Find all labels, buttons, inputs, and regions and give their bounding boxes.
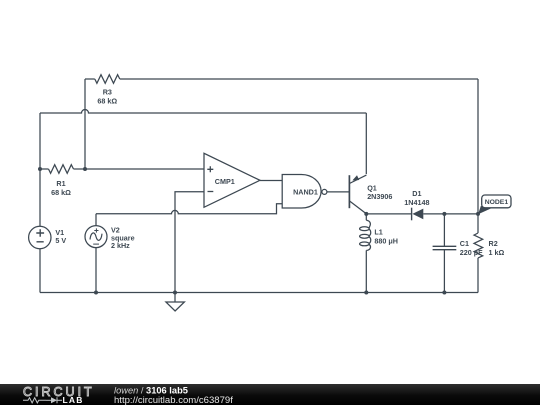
svg-text:2N3906: 2N3906: [367, 192, 392, 201]
svg-text:C1: C1: [460, 239, 469, 248]
wire V2 bottom: [95, 248, 97, 293]
transistor Q1 2N3906: [349, 175, 366, 214]
svg-text:880 μH: 880 μH: [374, 237, 398, 246]
wire CMP1 minus input to ground rail: [175, 192, 204, 293]
svg-text:NODE1: NODE1: [485, 199, 509, 206]
svg-text:http://circuitlab.com/c63879f: http://circuitlab.com/c63879f: [114, 395, 233, 405]
svg-text:5 V: 5 V: [55, 236, 66, 245]
svg-text:1N4148: 1N4148: [404, 198, 429, 207]
logo resistor-diode line: [23, 397, 62, 403]
resistor R2: [474, 214, 483, 293]
junction NODE1 R2 top: [476, 212, 480, 216]
resistor R3: [95, 75, 120, 84]
svg-text:D1: D1: [412, 189, 421, 198]
NAND gate NAND1: [282, 175, 327, 209]
wire emitter vertical: [365, 113, 367, 174]
svg-text:2 kHz: 2 kHz: [111, 241, 130, 250]
label NAND1: [293, 188, 318, 197]
label NODE1 text: [485, 199, 509, 206]
wire top rail left corner to R3: [85, 78, 95, 80]
label D1 value: [404, 189, 429, 207]
ground: [166, 293, 185, 312]
svg-text:R2: R2: [489, 239, 498, 248]
logo CIRCUIT outline text: [23, 385, 95, 399]
label R3 value: [97, 88, 117, 106]
junction V2 bottom rail: [94, 291, 98, 295]
svg-text:R1: R1: [56, 179, 65, 188]
svg-text:1 kΩ: 1 kΩ: [489, 248, 505, 257]
junction R1-R3-CMP1: [83, 167, 87, 171]
junction Q1 collector L1 D1: [364, 212, 368, 216]
wire R1 node to CMP1 plus input: [85, 168, 204, 170]
wire row2 V1-to-emitter with hop: [40, 110, 366, 113]
logo LAB text: [63, 395, 84, 405]
inductor L1: [360, 214, 371, 293]
wire vertical R3-to-R1 node: [84, 79, 86, 169]
svg-text:220 pF: 220 pF: [460, 248, 483, 257]
svg-text:L1: L1: [374, 228, 382, 237]
node NODE1 flag: [478, 195, 511, 214]
footer bar: [0, 384, 540, 405]
junction V1-R1: [38, 167, 42, 171]
junction C1 top: [442, 212, 446, 216]
wire CMP1 output to NAND input A: [260, 180, 282, 182]
label C1 value: [460, 239, 483, 257]
op-amp CMP1: [204, 153, 260, 207]
wire bottom rail: [40, 292, 478, 294]
voltage source V1: [29, 226, 51, 248]
svg-text:R3: R3: [103, 88, 112, 97]
svg-text:NAND1: NAND1: [293, 188, 318, 197]
svg-text:CIRCUIT: CIRCUIT: [23, 385, 95, 399]
label V2 value: [111, 226, 135, 251]
wire collector node row: [366, 213, 411, 215]
wire R3 to right rail: [120, 78, 478, 80]
diode D1 1N4148: [412, 208, 478, 221]
wire left rail lower: [39, 249, 41, 293]
footer title lowen / 3106 lab5: [114, 386, 188, 396]
voltage source V2 square: [85, 226, 107, 248]
junction C1 bottom rail: [442, 291, 446, 295]
svg-text:68 kΩ: 68 kΩ: [97, 97, 117, 106]
junction L1 bottom rail: [364, 291, 368, 295]
label CMP1: [215, 177, 235, 186]
wire right rail vertical: [477, 79, 479, 214]
label V1 value: [55, 228, 66, 245]
resistor R1: [40, 165, 85, 174]
svg-text:68 kΩ: 68 kΩ: [51, 188, 71, 197]
label L1 value: [374, 228, 398, 246]
svg-text:LAB: LAB: [63, 395, 84, 405]
capacitor C1: [433, 214, 457, 293]
label Q1 value: [367, 184, 392, 202]
junction ground rail: [173, 291, 177, 295]
svg-text:CMP1: CMP1: [215, 177, 235, 186]
wire V2 top to NAND input B with hop: [96, 204, 282, 226]
label R1 value: [51, 179, 71, 197]
footer url: [114, 395, 233, 405]
wire left rail upper: [39, 113, 41, 227]
wire NAND output to Q1 base: [327, 191, 350, 193]
label R2 value: [489, 239, 505, 257]
